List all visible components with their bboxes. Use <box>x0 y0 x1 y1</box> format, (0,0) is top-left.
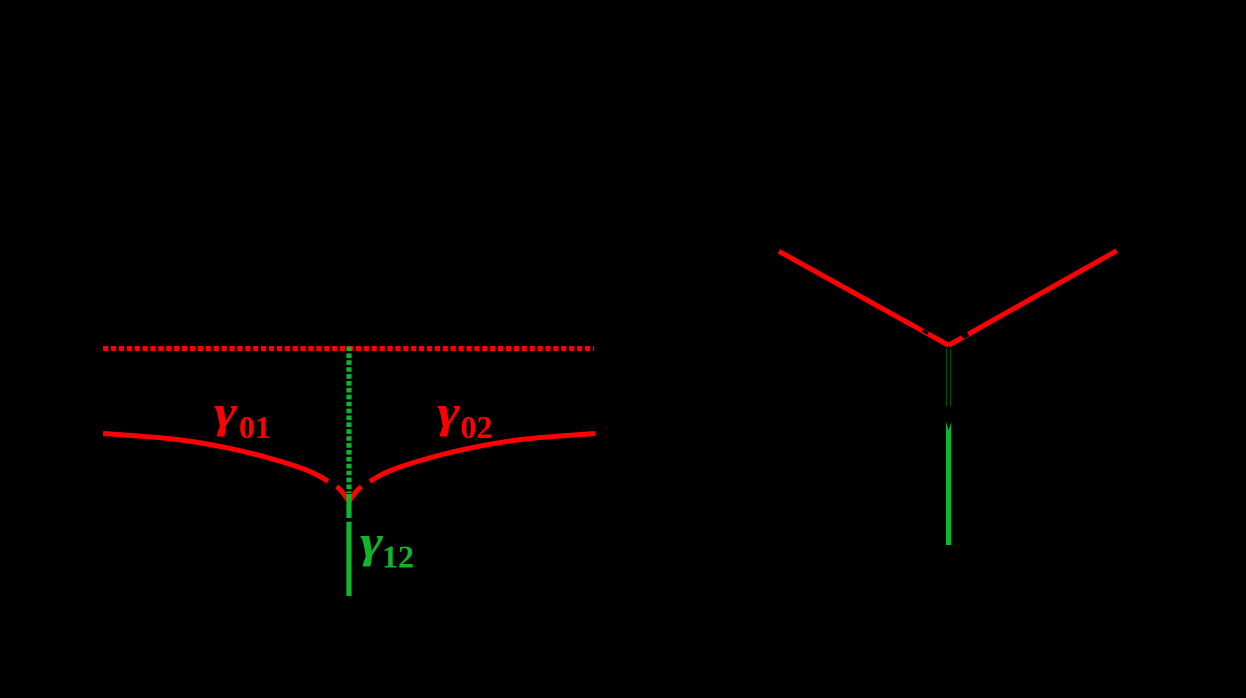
svg-text:γ: γ <box>214 386 238 437</box>
svg-text:12: 12 <box>382 539 414 575</box>
svg-text:γ: γ <box>437 386 461 437</box>
svg-text:01: 01 <box>239 409 271 445</box>
svg-text:γ: γ <box>360 516 384 567</box>
svg-text:02: 02 <box>461 409 493 445</box>
